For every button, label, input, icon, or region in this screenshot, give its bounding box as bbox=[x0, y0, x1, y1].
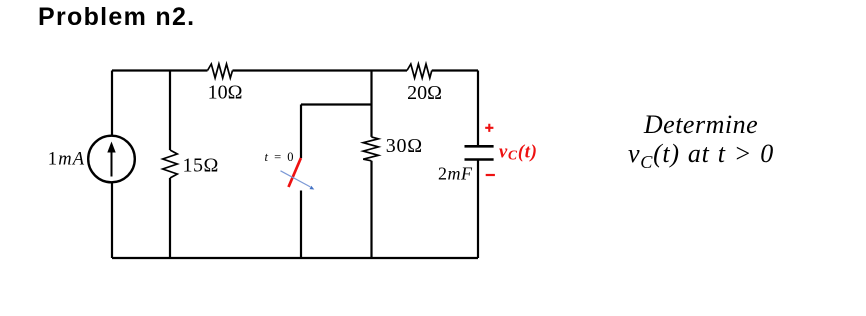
resistor R1 10ohm (horizontal zigzag in top wire) bbox=[208, 64, 233, 78]
switch SW (red blade, opens at t=0) bbox=[289, 158, 301, 187]
svg-text:t = 0: t = 0 bbox=[265, 150, 294, 164]
wire: left branch below current source bbox=[111, 183, 113, 259]
capacitor C1 2mF bottom plate bbox=[465, 158, 494, 161]
wire: bottom return wire bbox=[112, 257, 478, 259]
wire: top segment between 10ohm and 20ohm resistors bbox=[233, 69, 408, 71]
svg-text:30Ω: 30Ω bbox=[386, 135, 423, 157]
wire: right branch from top corner down to capacitor bbox=[477, 71, 479, 147]
resistor R4 20ohm (horizontal zigzag in top wire) bbox=[407, 64, 432, 78]
capacitor C1 2mF top plate bbox=[465, 145, 494, 148]
wire: 30ohm branch lower segment bbox=[370, 161, 372, 258]
wire: horizontal jumper from switch branch to 30ohm branch bbox=[301, 103, 372, 105]
label: capacitor voltage plus sign bbox=[485, 124, 493, 132]
label: capacitor voltage minus sign bbox=[486, 174, 495, 176]
svg-text:10Ω: 10Ω bbox=[208, 82, 243, 104]
svg-text:vC(t): vC(t) bbox=[499, 142, 538, 162]
wire: switch branch below switch contact bbox=[300, 191, 302, 259]
wire: top segment from node A (left corner) to resistor R 10ohm bbox=[112, 69, 208, 71]
wire: 15ohm branch lower segment bbox=[169, 178, 171, 258]
svg-text:2mF: 2mF bbox=[438, 164, 473, 184]
current source arrow (upward) bbox=[107, 142, 115, 177]
resistor R2 15ohm (vertical zigzag) bbox=[163, 150, 178, 178]
svg-text:20Ω: 20Ω bbox=[407, 82, 442, 104]
current source I1 1mA (circle) bbox=[88, 136, 135, 183]
wire: right branch from capacitor down to bottom corner bbox=[477, 160, 479, 259]
resistor R3 30ohm (vertical zigzag) bbox=[363, 137, 378, 161]
wire: 15ohm branch upper segment bbox=[169, 71, 171, 151]
switch opening motion arrow (blue) bbox=[281, 171, 315, 190]
problem statement text bbox=[591, 110, 811, 168]
svg-text:15Ω: 15Ω bbox=[183, 155, 219, 177]
wire: left branch above current source bbox=[111, 71, 113, 137]
svg-text:1mA: 1mA bbox=[48, 150, 86, 170]
wire: 30ohm branch upper segment bbox=[370, 71, 372, 137]
wire: top segment from 20ohm to right corner node bbox=[432, 69, 478, 71]
wire: switch branch above switch contact bbox=[300, 105, 302, 159]
title: Problem n2. bbox=[38, 3, 195, 32]
